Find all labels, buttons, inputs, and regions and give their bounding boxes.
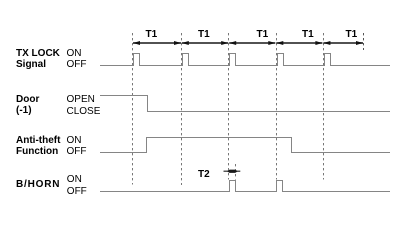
signal name Signal bbox=[16, 60, 46, 70]
interval label T1 first bbox=[146, 30, 158, 40]
interval label T1 fifth bbox=[346, 30, 358, 40]
state label OPEN (Door) bbox=[67, 95, 95, 105]
state label OFF (Anti-theft) bbox=[67, 147, 87, 157]
signal name TX LOCK bbox=[16, 49, 60, 59]
dashed guide line 4 (x=275.8) bbox=[276, 33, 278, 180]
signal name Function bbox=[16, 147, 58, 157]
waveform Anti-theft function bbox=[100, 138, 390, 153]
signal name B/HORN bbox=[16, 180, 60, 190]
interval label T1 third bbox=[257, 30, 269, 40]
dimension arrow T1 interval 2 bbox=[182, 41, 228, 45]
signal name Anti-theft bbox=[16, 136, 60, 146]
interval label T1 fourth bbox=[302, 30, 314, 40]
dashed guide line 5 (x=322.9) bbox=[323, 33, 325, 180]
dimension arrow T1 interval 1 bbox=[133, 41, 181, 45]
dashed end tick (last T1 right boundary, x=363.5) bbox=[363, 33, 365, 50]
interval label T2 bbox=[198, 170, 210, 180]
signal name (-1) bbox=[16, 106, 32, 116]
dimension arrow T1 interval 4 bbox=[276, 41, 322, 45]
dashed guide line 3 (x=228.7) bbox=[228, 33, 230, 180]
dashed guide short (B/HORN pulse fall, x=235.2) bbox=[235, 164, 237, 180]
dimension arrow T1 interval 5 bbox=[323, 41, 363, 45]
interval label T1 second bbox=[198, 30, 210, 40]
state label OFF (B/HORN) bbox=[67, 187, 87, 197]
waveform TX LOCK signal (5 pulses) bbox=[100, 54, 390, 66]
dimension arrow T1 interval 3 bbox=[229, 41, 275, 45]
dimension marker T2 (narrow span arrows at B/HORN pulse 1) bbox=[224, 170, 241, 173]
signal name Door bbox=[16, 95, 39, 105]
dashed guide line 2 (x=181.3) bbox=[181, 33, 183, 185]
state label OFF (TX LOCK) bbox=[67, 60, 87, 70]
state label ON (B/HORN) bbox=[67, 175, 82, 185]
waveform Door open/close bbox=[100, 96, 390, 112]
state label ON (Anti-theft) bbox=[67, 136, 82, 146]
waveform B/HORN (2 pulses) bbox=[100, 181, 390, 192]
dashed guide line 1 (x=132.5) bbox=[132, 33, 134, 185]
state label ON (TX LOCK) bbox=[67, 49, 82, 59]
state label CLOSE (Door) bbox=[67, 107, 101, 117]
